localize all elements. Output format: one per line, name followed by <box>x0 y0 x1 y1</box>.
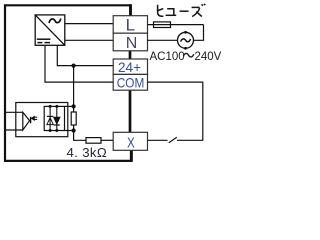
LED diode D2 (pointing down) <box>54 117 60 124</box>
LED branch right wire <box>56 106 58 130</box>
terminal 24+ <box>113 59 147 74</box>
photocoupler outer box <box>16 103 68 137</box>
svg-text:COM: COM <box>117 75 145 91</box>
node: LED branch dots <box>49 105 52 108</box>
wire: resistor to X terminal <box>101 139 113 141</box>
terminal L <box>113 16 147 34</box>
svg-text:240V: 240V <box>195 51 222 63</box>
phototransistor receiver triangle <box>23 112 30 130</box>
wire: power supply to L terminal <box>65 23 113 25</box>
enclosure stub above L terminal <box>129 4 132 16</box>
terminal X <box>113 132 147 150</box>
wire: N terminal to AC source <box>148 39 178 41</box>
enclosure stub between COM and X terminals <box>129 90 132 133</box>
wire: power supply bottom-right down to 24+ <box>57 45 113 65</box>
node: top rail junction <box>72 104 76 108</box>
wire: fuse line corner down to AC source <box>194 25 204 41</box>
terminal COM <box>113 74 147 90</box>
wire: COM terminal to switch loop <box>148 82 203 140</box>
svg-text:4. 3kΩ: 4. 3kΩ <box>67 145 108 160</box>
LED diode D1 (pointing up) <box>47 118 53 125</box>
receiver base bar <box>30 117 32 124</box>
enclosure stub below X terminal <box>130 150 133 161</box>
resistor R1 4.3kOhm (horizontal) <box>86 138 101 144</box>
LED inner box <box>44 106 64 130</box>
wire: LED bottom rail to junction <box>65 130 74 132</box>
svg-text:X: X <box>127 135 135 152</box>
wire: L terminal to fuse <box>148 24 204 26</box>
wire: photocoupler stub bottom to left border <box>5 129 23 131</box>
fuse F1 <box>154 22 171 28</box>
svg-text:L: L <box>126 15 135 34</box>
node: bottom rail junction <box>72 128 76 132</box>
wire: LED top rail to 24V rail <box>65 105 74 107</box>
power supply DC symbol <box>37 39 51 42</box>
power supply AC symbol <box>49 19 61 23</box>
wire: 24V rail down to input circuit <box>73 66 75 112</box>
PLC enclosure outline <box>5 4 132 161</box>
wire: photocoupler stub top to left border <box>5 111 23 113</box>
light arrows <box>32 117 38 120</box>
power supply unit U1 (AC/DC converter) <box>35 15 65 45</box>
svg-text:AC100: AC100 <box>150 51 185 63</box>
enclosure stub between N and 24+ terminals <box>129 50 132 59</box>
wire: resistor bottom to 4.3k wire <box>74 125 86 140</box>
LED branch left wire <box>49 106 51 130</box>
svg-text:24+: 24+ <box>118 59 141 75</box>
label fuse (katakana hyuzu) <box>157 4 205 17</box>
node: junction on 24+ wire <box>72 64 76 68</box>
AC source G1 <box>178 32 194 48</box>
terminal N <box>113 33 147 51</box>
wire: X terminal to switch <box>148 139 168 141</box>
wire: power supply to N terminal <box>65 39 113 41</box>
resistor (vertical, input bleeder) <box>71 112 76 125</box>
svg-text:N: N <box>126 35 138 52</box>
wire: power supply bottom-left down to COM <box>45 45 113 82</box>
switch S1 blade <box>169 137 177 143</box>
